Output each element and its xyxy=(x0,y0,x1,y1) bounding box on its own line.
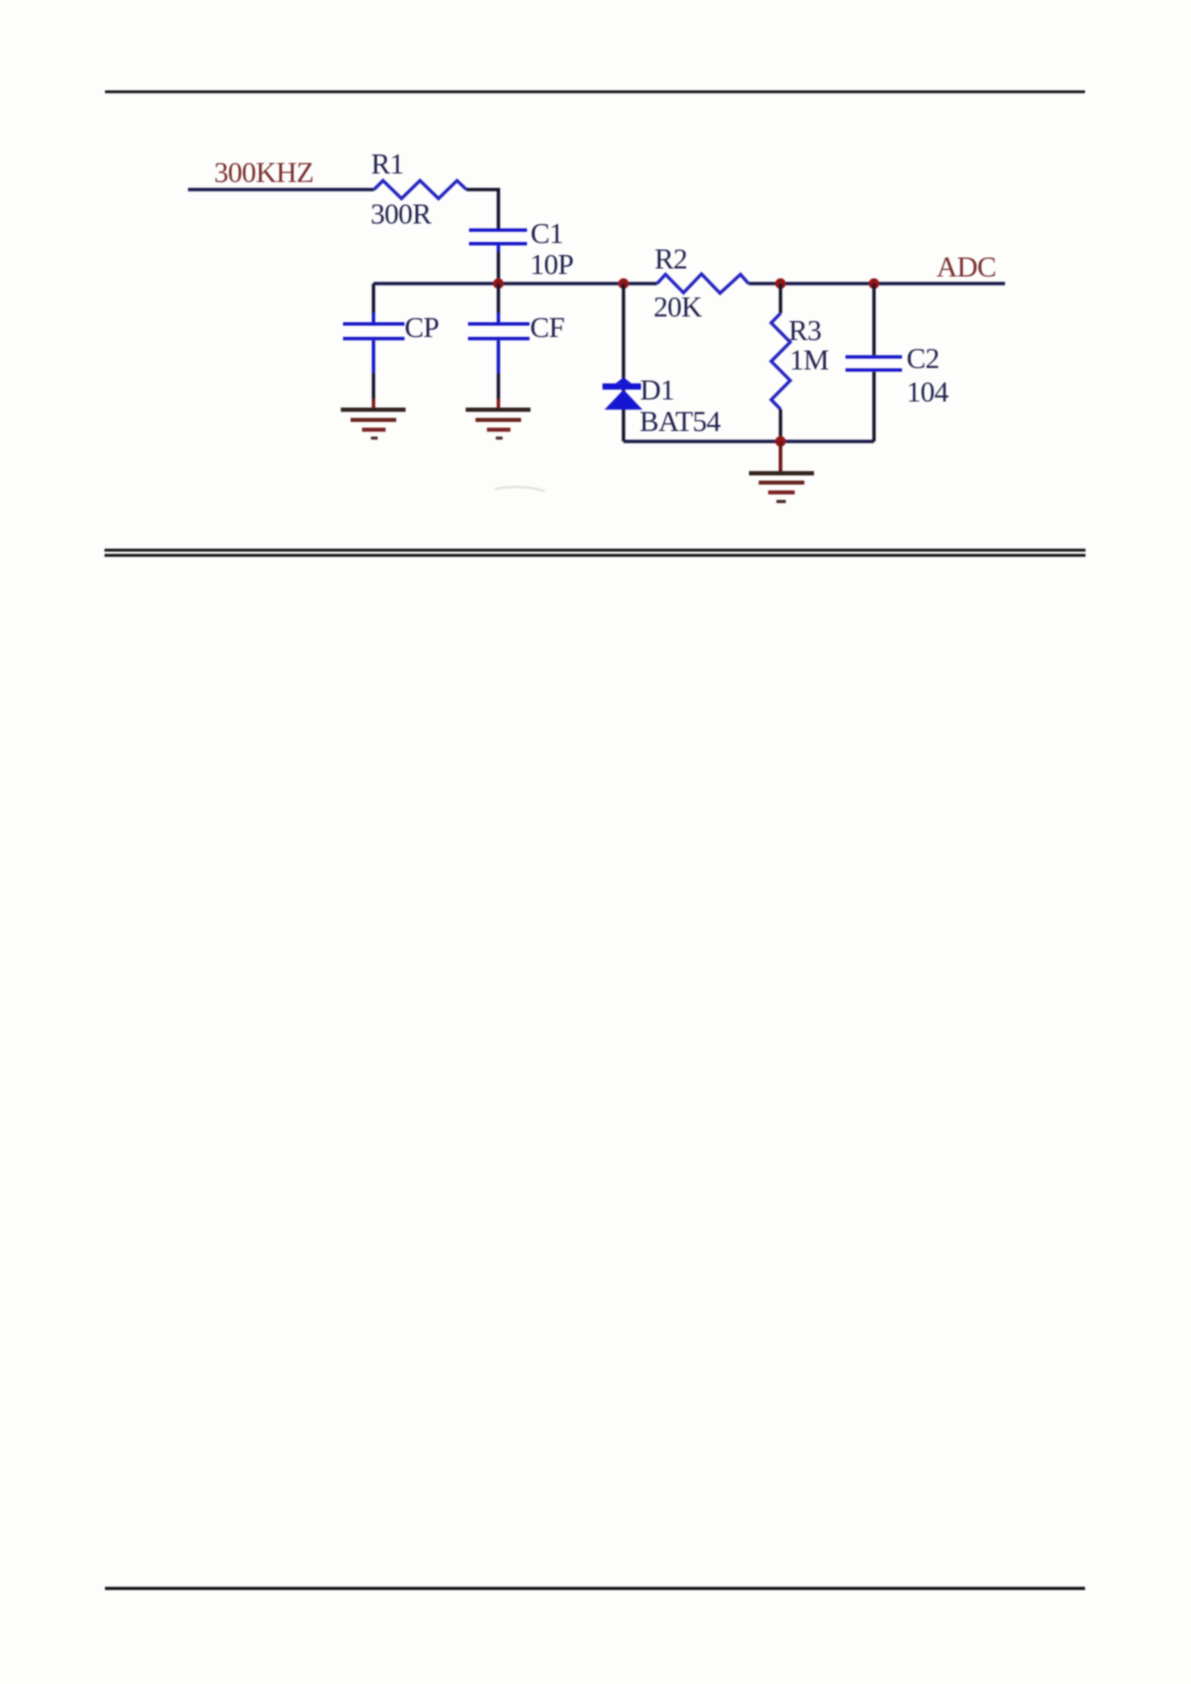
svg-text:ADC: ADC xyxy=(937,252,996,284)
faint smudge artifact xyxy=(495,487,545,491)
svg-text:BAT54: BAT54 xyxy=(640,406,722,438)
ground (main) xyxy=(749,471,814,503)
svg-text:CP: CP xyxy=(405,312,439,344)
resistor R1 xyxy=(374,181,467,199)
node junction at R3 branch xyxy=(775,278,786,289)
capacitor C2 xyxy=(846,355,903,371)
svg-text:R1: R1 xyxy=(371,149,404,181)
svg-text:C2: C2 xyxy=(907,343,940,375)
svg-text:300KHZ: 300KHZ xyxy=(214,157,314,189)
wire: R1 to C1 corner xyxy=(467,190,499,229)
ground (CP) xyxy=(341,408,406,440)
wire: CP to ground xyxy=(372,373,375,399)
node junction at C2 branch xyxy=(869,278,880,289)
resistor R3 xyxy=(771,313,790,409)
top page rule xyxy=(105,90,1085,93)
node junction at C1/CF xyxy=(493,278,504,289)
wire: 300KHZ input net xyxy=(188,188,374,191)
wire: C2 branch top xyxy=(872,284,875,356)
node junction at D1 branch xyxy=(618,278,629,289)
wire: R3 branch bottom xyxy=(779,409,782,441)
svg-text:20K: 20K xyxy=(654,292,703,324)
svg-text:10P: 10P xyxy=(530,249,573,281)
wire: CF branch down xyxy=(497,284,500,313)
wire: main horizontal net (right of R2) to ADC xyxy=(749,282,1006,285)
capacitor CP xyxy=(343,322,405,373)
svg-text:C1: C1 xyxy=(531,218,564,250)
wire: CF to ground xyxy=(497,373,500,399)
wire: C1 to main node xyxy=(497,252,500,284)
svg-text:104: 104 xyxy=(907,377,950,409)
wire: R3 branch top xyxy=(779,284,782,314)
wire: D1 branch down xyxy=(622,284,625,442)
capacitor C1 xyxy=(469,228,527,251)
resistor R2 xyxy=(657,274,749,293)
wire: junction to ground xyxy=(779,441,783,471)
wire: C2 branch bottom xyxy=(872,372,875,442)
wire: main horizontal net (left of R2) xyxy=(374,282,658,285)
svg-text:R2: R2 xyxy=(655,244,688,276)
svg-text:R3: R3 xyxy=(789,315,822,347)
svg-text:CF: CF xyxy=(530,312,565,344)
svg-text:300R: 300R xyxy=(371,199,433,231)
ground (CF) xyxy=(466,408,531,440)
diode D1 (BAT54) xyxy=(603,377,643,409)
wire: CP branch down xyxy=(372,284,375,313)
node junction at bottom rail / ground xyxy=(775,436,786,447)
wire: bottom ground rail xyxy=(624,440,875,443)
bottom page rule xyxy=(105,1587,1085,1590)
svg-text:D1: D1 xyxy=(640,375,674,407)
svg-text:1M: 1M xyxy=(790,345,829,377)
capacitor CF xyxy=(468,322,530,373)
double page rule xyxy=(105,549,1086,552)
